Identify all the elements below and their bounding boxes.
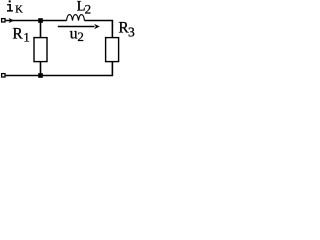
svg-text:u: u <box>70 26 78 43</box>
svg-text:R: R <box>12 25 23 42</box>
wire top rail <box>6 20 67 22</box>
svg-text:2: 2 <box>77 29 84 44</box>
node junction top <box>38 18 43 23</box>
resistor R1 <box>34 38 47 62</box>
current arrow i_K <box>9 18 14 23</box>
resistor R3 <box>106 38 119 62</box>
node junction bottom <box>38 73 43 78</box>
svg-text:2: 2 <box>85 2 92 17</box>
wire R3 bottom <box>6 62 113 77</box>
terminal top-left <box>2 19 5 22</box>
wire inductor to corner and right vertical <box>85 20 113 38</box>
wire R1 branch <box>40 21 42 76</box>
terminal bottom-left <box>2 74 5 77</box>
label i_K <box>7 0 13 11</box>
inductor L2 <box>67 15 85 21</box>
voltage arrow u2 <box>58 26 95 28</box>
svg-text:K: K <box>15 4 23 15</box>
svg-text:3: 3 <box>128 25 135 40</box>
svg-text:1: 1 <box>23 30 30 45</box>
